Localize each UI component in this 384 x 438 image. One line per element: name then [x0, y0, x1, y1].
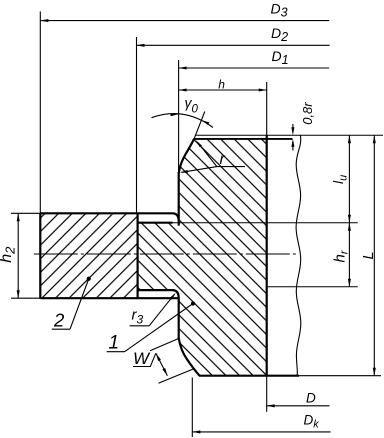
dimension W: [133, 338, 194, 383]
label r with leaders: [180, 140, 245, 173]
h_r bottom extension line: [267, 286, 358, 288]
svg-text:0,8r: 0,8r: [300, 102, 315, 125]
web top face: [138, 222, 173, 224]
dimension 0,8r: [291, 102, 314, 151]
svg-text:W: W: [133, 349, 151, 368]
dimension h: [179, 78, 267, 92]
hub section hatching (part 2): [40, 213, 137, 298]
dimension D: [267, 391, 330, 408]
dimension h_r: [331, 223, 351, 287]
svg-text:1: 1: [109, 333, 120, 354]
dimension L: [361, 135, 377, 375]
web top face extension line / l_u bottom: [172, 222, 358, 224]
rim left wall lower: [178, 298, 180, 338]
h2 bottom extension line: [11, 297, 40, 299]
web bottom face with fillet r3: [138, 290, 179, 298]
rim bottom face: [199, 375, 299, 377]
D1 extension line: [178, 60, 180, 173]
groove wall slant extension line: [194, 112, 205, 139]
hub left edge: [39, 213, 41, 298]
svg-text:D: D: [306, 391, 316, 406]
dimension l_u: [330, 135, 351, 222]
part label 2 with leader and dot: [52, 277, 91, 331]
hub/web boundary: [137, 213, 139, 298]
h2 top extension line: [11, 212, 40, 214]
D3 extension line: [39, 12, 41, 214]
angle gamma0 arc: [152, 114, 214, 128]
hub top face: [40, 213, 178, 221]
rim top face line: [195, 134, 383, 136]
rim and web section hatching (part 1): [138, 139, 267, 376]
dimension D3: [40, 0, 329, 22]
D extension line below rim: [266, 376, 268, 412]
L bottom extension line: [299, 375, 381, 377]
svg-text:h2: h2: [0, 246, 17, 263]
svg-text:h: h: [218, 78, 225, 92]
centerline (axis): [34, 253, 298, 255]
part label 1 with leader and dot: [107, 301, 195, 353]
0.8r groove datum line: [194, 138, 292, 140]
svg-text:r: r: [220, 151, 226, 168]
rim left wall upper: [178, 172, 180, 226]
rim bottom flange curve: [179, 338, 200, 376]
break wavy line: [296, 135, 301, 375]
svg-text:2: 2: [53, 310, 65, 331]
gamma0 arc right arrow: [202, 120, 210, 125]
dimension D1: [179, 48, 330, 70]
Dk extension line: [191, 378, 193, 438]
dimension h2: [0, 213, 20, 298]
h right extension line: [266, 82, 268, 135]
svg-text:L: L: [361, 251, 377, 259]
dimension Dk: [192, 413, 330, 434]
hub bottom face: [40, 297, 178, 299]
label r3 with leader arrow: [130, 293, 176, 327]
dimension D2: [137, 25, 330, 47]
gamma0 arc left arrow: [170, 113, 178, 116]
D2 extension line: [136, 37, 138, 213]
rim right edge: [266, 135, 268, 375]
groove wall curve: [179, 139, 195, 174]
